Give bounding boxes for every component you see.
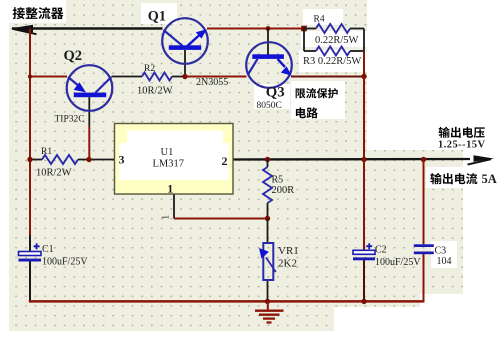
wire: shunt node down to Q3 emitter row: [363, 51, 365, 77]
svg-text:R3 0.22R/5W: R3 0.22R/5W: [303, 56, 361, 67]
svg-text:VR1: VR1: [278, 245, 299, 257]
capacitor C1 bottom plate: [19, 259, 42, 262]
svg-text:2: 2: [222, 154, 228, 168]
ground bar 1: [255, 310, 284, 312]
output arrow slash: [468, 159, 492, 164]
wire: Q2 base vertical: [88, 97, 90, 126]
potentiometer VR1 wiper line: [266, 258, 276, 273]
svg-text:8050C: 8050C: [257, 101, 282, 111]
svg-text:R5: R5: [272, 175, 284, 186]
wire: C3 bottom lead to rail corner: [423, 254, 425, 303]
label: circuit (Chinese): [296, 107, 318, 118]
white patch behind R3 label: [299, 50, 372, 72]
wire: output line from U1 pin 2: [233, 158, 470, 161]
node: rail/Q2: [28, 74, 32, 78]
node: VR1/ground rail: [265, 299, 270, 304]
wire: shunt loop right vertical: [363, 29, 365, 52]
svg-text:R1: R1: [41, 147, 52, 157]
ground bar 2: [259, 314, 280, 316]
wire: R4 right lead: [350, 28, 364, 30]
white region top-right: [367, 0, 500, 150]
wire: node to Q3 collector: [185, 76, 247, 78]
transistor Q3 base bar: [252, 54, 284, 59]
ground stub: [267, 301, 269, 310]
white patch behind R4 label: [303, 9, 343, 25]
svg-text:Q2: Q2: [64, 48, 83, 64]
node: R2/Q1 base junction: [182, 74, 187, 79]
node: R5/VR1/pin1 junction: [265, 216, 270, 221]
svg-text:R4: R4: [314, 15, 325, 25]
wire: input line from rectifier: [12, 27, 163, 29]
wire: Q1 emitter to shunt node: [207, 28, 304, 30]
wire: R3 right lead: [350, 50, 364, 52]
wire: C1 bottom lead: [29, 262, 31, 301]
output arrow head: [474, 155, 495, 161]
wire: R4 leads: [304, 28, 316, 30]
svg-text:R2: R2: [144, 64, 155, 74]
wire: VR1 bottom lead: [267, 280, 269, 301]
transistor Q3 emitter arrowhead: [281, 66, 292, 75]
svg-text:2K2: 2K2: [278, 257, 297, 269]
svg-text:10R/2W: 10R/2W: [137, 86, 173, 97]
op-amp U1 regulator body: [115, 124, 234, 195]
node: R1/Q2 base: [86, 157, 91, 162]
U1 interior white patch lower: [119, 143, 229, 180]
svg-text:C1: C1: [42, 244, 54, 255]
node: output/R5: [265, 157, 270, 162]
svg-text:LM317: LM317: [153, 159, 185, 170]
wire: Q2 collector to R2: [112, 76, 143, 78]
transistor Q1 base bar: [169, 45, 201, 50]
transistor Q1 emitter arrowhead: [196, 29, 207, 38]
ground bar 4: [267, 321, 272, 323]
capacitor C3 top plate: [414, 244, 434, 247]
wire: R2 right lead: [172, 76, 185, 78]
resistor R5 zigzag: [263, 167, 272, 203]
node: output/C3 branch: [421, 157, 426, 162]
transistor Q3 circle: [246, 42, 292, 88]
capacitor C3 bottom plate: [414, 252, 434, 255]
transistor Q2 circle: [67, 65, 113, 111]
svg-text:U1: U1: [161, 147, 174, 158]
ground bar 3: [263, 317, 275, 319]
svg-text:100uF/25V: 100uF/25V: [42, 257, 88, 268]
label: output voltage (Chinese): [439, 127, 485, 138]
wire: Q2 emitter to rail: [30, 76, 67, 78]
transistor Q1 circle: [162, 18, 208, 64]
node: rail/R1: [27, 157, 32, 162]
potentiometer VR1 wiper arrowhead: [259, 248, 269, 259]
wire: R3 left lead: [304, 50, 316, 52]
capacitor C2 plus sign: [366, 243, 372, 249]
svg-text:1: 1: [161, 215, 171, 220]
resistor R2 zigzag: [142, 73, 172, 81]
svg-text:TIP32C: TIP32C: [55, 115, 85, 125]
white region bottom-right: [334, 307, 500, 339]
node: C2/ground rail: [361, 299, 366, 304]
wire: shunt loop left vertical: [303, 29, 305, 52]
svg-text:1: 1: [167, 182, 173, 196]
label: output current (Chinese): [430, 173, 477, 184]
svg-text:200R: 200R: [272, 185, 295, 196]
wire: C2 bottom lead: [363, 260, 365, 301]
resistor R1 zigzag: [42, 155, 78, 164]
wire: VR1 top lead: [267, 219, 269, 244]
transistor Q2 emitter arrowhead: [74, 82, 86, 92]
wire: C3 branch upper: [423, 160, 425, 245]
white patch behind Q3 labels: [254, 84, 290, 109]
svg-text:Q1: Q1: [148, 8, 166, 24]
capacitor C2 top plate: [353, 250, 375, 254]
svg-text:C3: C3: [435, 246, 447, 257]
node: output/C2 branch: [361, 157, 366, 162]
wire: C1 top lead: [29, 235, 31, 252]
wire: R1 right lead to U1 pin 3: [78, 159, 115, 161]
capacitor C1 top plate: [19, 252, 42, 256]
potentiometer VR1 body: [263, 243, 273, 280]
label: current limit protection (Chinese): [296, 88, 338, 98]
input arrow head: [11, 25, 34, 32]
svg-text:3: 3: [119, 153, 125, 167]
svg-text:2N3055: 2N3055: [196, 77, 228, 88]
wire: U1 pin 1 vertical: [173, 194, 175, 219]
svg-text:0.22R/5W: 0.22R/5W: [315, 35, 359, 46]
input arrow slash: [13, 29, 37, 34]
white patch behind Q1 label: [141, 3, 177, 24]
svg-text:10R/2W: 10R/2W: [36, 168, 72, 179]
white patch behind input label: [0, 0, 66, 23]
wire: Q3 emitter to vertical: [291, 76, 364, 78]
wire: pin 1 horizontal to R5/VR1: [174, 218, 268, 220]
svg-text:1.25--15V: 1.25--15V: [438, 139, 486, 150]
wire: ground rail bottom: [29, 300, 424, 303]
white patch behind protection-circuit label: [291, 81, 345, 119]
wire: R5 bottom lead: [267, 203, 269, 219]
wire: R1 left lead: [30, 159, 42, 161]
capacitor C1 plus sign: [34, 243, 40, 249]
white patch behind R4 value: [301, 31, 371, 47]
transistor Q2 collector lead: [96, 77, 112, 93]
wire: R5 top lead: [267, 160, 269, 168]
node: shunt left junction: [301, 26, 307, 32]
white patch behind C3 labels: [431, 241, 457, 268]
node: Q3 base junction: [266, 26, 271, 31]
wire: Q1 base vertical: [184, 50, 186, 77]
transistor Q2 base bar: [74, 93, 106, 98]
node: Q3 emitter/vertical junction: [361, 74, 366, 79]
label: connect to rectifier (Chinese): [13, 7, 64, 19]
svg-text:100uF/25V: 100uF/25V: [375, 257, 421, 268]
svg-text:5A: 5A: [482, 172, 497, 186]
wire: C2 branch upper: [363, 160, 365, 251]
wire: Q3 base vertical: [267, 29, 269, 55]
transistor Q1 emitter lead: [188, 35, 200, 46]
wire: left rail vertical: [29, 29, 31, 237]
svg-text:Q3: Q3: [266, 84, 285, 100]
white patch behind output current label: [426, 167, 498, 188]
transistor Q3 emitter lead: [278, 59, 286, 67]
transistor Q3 collector lead: [248, 59, 258, 75]
svg-text:104: 104: [437, 256, 452, 267]
resistor R4 zigzag: [316, 24, 350, 33]
transistor Q1 collector lead: [164, 30, 183, 46]
resistor R3 zigzag: [316, 47, 350, 56]
U1 interior white patch upper: [127, 131, 223, 147]
svg-text:C2: C2: [375, 245, 387, 256]
capacitor C2 bottom plate: [353, 257, 375, 260]
wire: Q2 base vertical lower: [88, 126, 90, 160]
wire: vertical down to output rail: [363, 77, 365, 160]
transistor Q2 emitter lead: [68, 77, 80, 87]
